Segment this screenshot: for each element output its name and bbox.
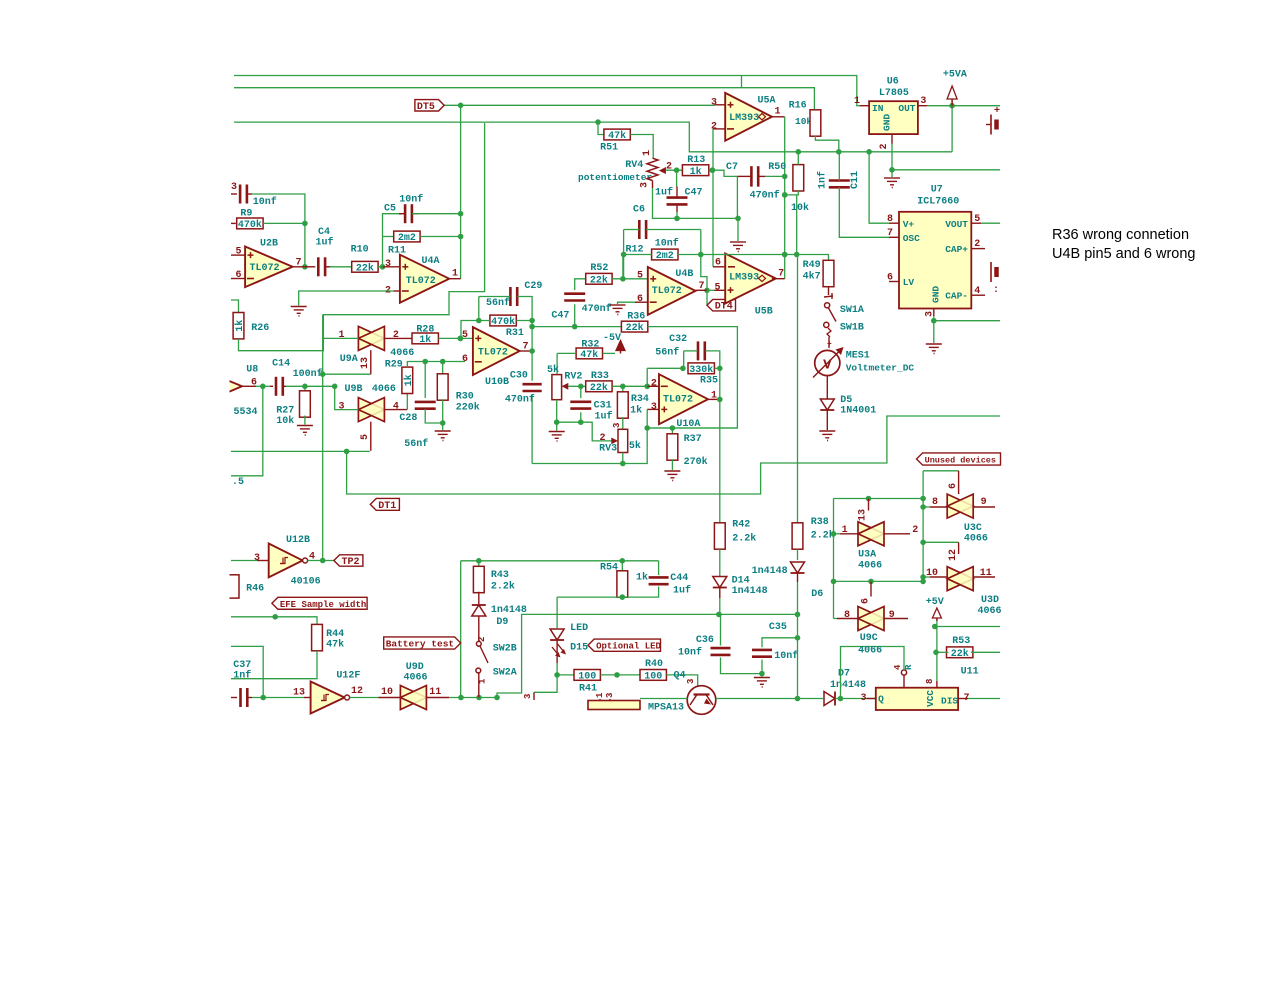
svg-text:+: +	[827, 340, 832, 349]
svg-text:LV: LV	[903, 277, 915, 288]
svg-text:2: 2	[599, 433, 605, 444]
svg-text:4: 4	[393, 402, 399, 413]
svg-text:220k: 220k	[456, 402, 480, 414]
svg-text:3: 3	[254, 553, 260, 564]
svg-text:22k: 22k	[356, 262, 374, 274]
svg-text:U9D: U9D	[406, 662, 424, 673]
svg-text:R53: R53	[952, 636, 970, 647]
svg-text:RV4: RV4	[625, 160, 643, 171]
svg-text:270k: 270k	[684, 456, 708, 468]
svg-text:5k: 5k	[629, 440, 641, 452]
svg-text:U6: U6	[887, 77, 899, 88]
svg-text:5: 5	[360, 434, 371, 440]
svg-text:R29: R29	[385, 360, 403, 371]
svg-text:470k: 470k	[238, 219, 262, 231]
svg-text:12: 12	[948, 549, 959, 561]
svg-text:R26: R26	[251, 323, 269, 334]
svg-text:U4A: U4A	[422, 256, 440, 267]
svg-text:1: 1	[775, 107, 781, 118]
svg-text:U10B: U10B	[485, 377, 509, 388]
svg-text:R36: R36	[627, 312, 645, 323]
svg-text:Voltmeter_DC: Voltmeter_DC	[846, 363, 915, 374]
svg-text:6: 6	[861, 598, 872, 604]
svg-text:U3C: U3C	[964, 523, 982, 534]
svg-text:C7: C7	[726, 162, 738, 173]
svg-text:4066: 4066	[404, 673, 428, 684]
svg-text:D5: D5	[840, 395, 852, 406]
svg-text:470k: 470k	[491, 316, 515, 328]
svg-text:10nf: 10nf	[774, 650, 798, 662]
svg-text:3: 3	[231, 182, 237, 193]
svg-text:4: 4	[893, 664, 903, 670]
svg-text:RV2: RV2	[564, 372, 582, 383]
svg-text:D15: D15	[570, 643, 588, 654]
svg-text:1nf: 1nf	[233, 670, 251, 682]
svg-text:R49: R49	[803, 260, 821, 271]
svg-text:56nf: 56nf	[655, 347, 679, 359]
svg-text:DT4: DT4	[715, 302, 733, 313]
svg-text:Q4: Q4	[674, 671, 686, 682]
svg-text:VCC: VCC	[925, 690, 936, 707]
svg-text:22k: 22k	[951, 648, 969, 660]
svg-text:R13: R13	[687, 155, 705, 166]
svg-text:+5VA: +5VA	[943, 70, 967, 81]
svg-text:D7: D7	[838, 669, 850, 680]
svg-text:R46: R46	[246, 584, 264, 595]
svg-text:6: 6	[462, 354, 468, 365]
svg-text:OUT: OUT	[898, 103, 915, 114]
svg-text:R27: R27	[276, 406, 294, 417]
svg-text:2.2k: 2.2k	[732, 533, 756, 545]
svg-text:3: 3	[860, 693, 866, 704]
svg-text:3: 3	[686, 679, 696, 684]
svg-text:Unused devices: Unused devices	[925, 456, 996, 466]
svg-text:U11: U11	[961, 667, 979, 678]
svg-text:R37: R37	[684, 434, 702, 445]
svg-text:3: 3	[385, 259, 391, 270]
svg-text:+5V: +5V	[926, 597, 944, 608]
svg-text:LED: LED	[570, 623, 588, 634]
svg-text:40106: 40106	[291, 577, 321, 588]
svg-text:6: 6	[236, 270, 242, 281]
svg-text:4066: 4066	[372, 384, 396, 395]
svg-text:TL072: TL072	[478, 348, 508, 359]
svg-text:2: 2	[912, 525, 918, 536]
svg-text:2: 2	[651, 379, 657, 390]
svg-text:9: 9	[889, 610, 895, 621]
svg-text:R44: R44	[326, 629, 344, 640]
svg-text:1uf: 1uf	[673, 585, 691, 597]
svg-text:1k: 1k	[234, 320, 246, 332]
svg-text:D14: D14	[732, 576, 750, 587]
svg-text:470nf: 470nf	[505, 394, 535, 406]
svg-text:6: 6	[948, 483, 959, 489]
svg-text:U9A: U9A	[340, 354, 358, 365]
svg-text:LM393: LM393	[729, 273, 759, 284]
svg-text:4k7: 4k7	[803, 271, 821, 283]
svg-text:R36 wrong connetion: R36 wrong connetion	[1052, 227, 1189, 243]
svg-text:R40: R40	[645, 659, 663, 670]
svg-text:TL072: TL072	[250, 263, 280, 274]
svg-text:100nf: 100nf	[293, 368, 323, 380]
svg-text::: :	[993, 285, 999, 296]
svg-text:R43: R43	[491, 570, 509, 581]
svg-text:.5: .5	[232, 477, 244, 488]
svg-text:10nf: 10nf	[655, 238, 679, 250]
svg-text:U3D: U3D	[981, 595, 999, 606]
svg-text:56nf: 56nf	[486, 297, 510, 309]
svg-text:SW2A: SW2A	[493, 668, 517, 679]
svg-text:TP2: TP2	[342, 557, 360, 568]
svg-text:C31: C31	[594, 401, 612, 412]
svg-text:1: 1	[642, 150, 653, 156]
svg-text:R52: R52	[590, 263, 608, 274]
svg-text:2: 2	[711, 122, 717, 133]
svg-text:2.2k: 2.2k	[491, 581, 515, 593]
svg-text:U5B: U5B	[755, 307, 773, 318]
svg-text:R16: R16	[789, 101, 807, 112]
svg-text:22k: 22k	[590, 274, 608, 286]
svg-text:SW2B: SW2B	[493, 644, 517, 655]
svg-text:DIS: DIS	[941, 696, 958, 707]
svg-text:Q: Q	[878, 694, 884, 705]
svg-text:C11: C11	[850, 171, 861, 189]
svg-text:1: 1	[338, 330, 344, 341]
svg-text:4066: 4066	[978, 606, 1002, 617]
svg-text:TL072: TL072	[406, 276, 436, 287]
svg-text:1k: 1k	[690, 166, 702, 178]
svg-text:R31: R31	[506, 328, 524, 339]
svg-text:R50: R50	[768, 162, 786, 173]
svg-text:11: 11	[429, 687, 441, 698]
svg-text:100: 100	[578, 672, 596, 683]
svg-text:C44: C44	[670, 573, 688, 584]
svg-text:47k: 47k	[580, 349, 598, 361]
svg-text:2m2: 2m2	[398, 233, 416, 244]
svg-text:SW1B: SW1B	[840, 323, 864, 334]
svg-text:1uf: 1uf	[316, 237, 334, 249]
svg-text:DT5: DT5	[417, 102, 435, 113]
svg-text:R54: R54	[600, 563, 618, 574]
svg-text:10k: 10k	[791, 202, 809, 214]
svg-text:1n4148: 1n4148	[752, 566, 788, 577]
svg-text:C6: C6	[633, 205, 645, 216]
svg-text:22k: 22k	[590, 382, 608, 394]
svg-text:ICL7660: ICL7660	[917, 197, 959, 208]
svg-text:R35: R35	[700, 376, 718, 387]
svg-text:3: 3	[338, 402, 344, 413]
svg-text:DT1: DT1	[378, 501, 396, 512]
svg-text:R30: R30	[456, 392, 474, 403]
svg-text:RV3: RV3	[599, 444, 617, 455]
svg-text:8: 8	[844, 610, 850, 621]
svg-text:C35: C35	[769, 622, 787, 633]
svg-text:U9C: U9C	[860, 633, 878, 644]
svg-text:4066: 4066	[858, 646, 882, 657]
svg-text:IN: IN	[872, 103, 884, 114]
svg-text:Optional LED: Optional LED	[596, 642, 661, 652]
svg-text:C30: C30	[510, 371, 528, 382]
svg-text:+: +	[994, 106, 1000, 117]
svg-text:U9B: U9B	[345, 384, 363, 395]
svg-text:10: 10	[381, 687, 393, 698]
svg-text:12: 12	[351, 686, 363, 697]
svg-text:1k: 1k	[403, 374, 415, 386]
svg-text:U2B: U2B	[260, 238, 278, 249]
svg-text:3: 3	[612, 423, 622, 428]
svg-text:R38: R38	[811, 517, 829, 528]
svg-text:10nf: 10nf	[253, 196, 277, 208]
svg-text:C29: C29	[524, 281, 542, 292]
svg-text:1k: 1k	[419, 334, 431, 346]
svg-text:47k: 47k	[326, 639, 344, 651]
svg-text:4066: 4066	[390, 348, 414, 359]
svg-text:1k: 1k	[636, 572, 648, 584]
svg-text:U7: U7	[931, 185, 943, 196]
svg-text:C47: C47	[551, 311, 569, 322]
svg-text:1: 1	[854, 96, 860, 107]
svg-text:-5V: -5V	[603, 333, 621, 344]
svg-text:4066: 4066	[858, 561, 882, 572]
svg-text:5: 5	[714, 283, 720, 294]
svg-text:D9: D9	[496, 617, 508, 628]
svg-text:R42: R42	[732, 520, 750, 531]
svg-text:MES1: MES1	[846, 351, 870, 362]
svg-text:5: 5	[236, 247, 242, 258]
svg-text:330k: 330k	[689, 364, 713, 376]
svg-text:CAP-: CAP-	[945, 291, 968, 302]
svg-text:1uf: 1uf	[595, 411, 613, 423]
svg-text:GND: GND	[931, 286, 942, 303]
svg-text:6: 6	[637, 294, 643, 305]
svg-text:8: 8	[925, 679, 935, 684]
svg-text:TL072: TL072	[663, 395, 693, 406]
svg-text:13: 13	[858, 509, 869, 521]
svg-text:5534: 5534	[234, 407, 258, 418]
svg-text:C28: C28	[399, 413, 417, 424]
svg-text:U5A: U5A	[758, 96, 776, 107]
svg-text:2: 2	[879, 144, 890, 150]
svg-text:1n4148: 1n4148	[491, 605, 527, 616]
svg-text:VOUT: VOUT	[945, 219, 968, 230]
svg-text:3: 3	[605, 693, 615, 698]
svg-text:3: 3	[640, 182, 651, 188]
svg-text:1nf: 1nf	[817, 171, 829, 189]
svg-text:MPSA13: MPSA13	[648, 703, 684, 714]
svg-text:C4: C4	[318, 227, 330, 238]
svg-text:C32: C32	[669, 334, 687, 345]
svg-text:2: 2	[393, 330, 399, 341]
svg-text:R51: R51	[600, 143, 618, 154]
svg-text:10nf: 10nf	[678, 647, 702, 659]
svg-text:22k: 22k	[626, 322, 644, 334]
svg-text:1: 1	[595, 692, 605, 698]
svg-text:56nf: 56nf	[404, 438, 428, 450]
svg-text:R10: R10	[351, 244, 369, 255]
svg-text:10nf: 10nf	[399, 194, 423, 206]
svg-text:U4B: U4B	[675, 269, 693, 280]
svg-text:LM393: LM393	[729, 113, 759, 124]
svg-text:13: 13	[360, 357, 371, 369]
svg-text:7: 7	[778, 269, 784, 280]
svg-text:U4B pin5 and 6 wrong: U4B pin5 and 6 wrong	[1052, 246, 1196, 262]
svg-text:C37: C37	[233, 660, 251, 671]
svg-text:C47: C47	[685, 188, 703, 199]
svg-text:U12F: U12F	[336, 671, 360, 682]
svg-text:SW1A: SW1A	[840, 305, 864, 316]
svg-text:470nf: 470nf	[750, 189, 780, 201]
svg-text:L7805: L7805	[879, 88, 909, 99]
svg-text:CAP+: CAP+	[945, 244, 968, 255]
svg-text:2: 2	[666, 162, 672, 173]
svg-text:U8: U8	[246, 365, 258, 376]
svg-text:U12B: U12B	[286, 535, 310, 546]
svg-text:1n4148: 1n4148	[732, 586, 768, 597]
svg-text:3: 3	[651, 402, 657, 413]
svg-text:C36: C36	[696, 635, 714, 646]
svg-text:GND: GND	[882, 114, 893, 131]
svg-text:TL072: TL072	[652, 286, 682, 297]
svg-text:Battery test: Battery test	[386, 639, 454, 650]
svg-text:100: 100	[644, 672, 662, 683]
svg-text:2m2: 2m2	[656, 251, 674, 262]
svg-text:3: 3	[711, 98, 717, 109]
svg-text:1: 1	[452, 269, 458, 280]
svg-text:3: 3	[523, 694, 533, 699]
svg-text:D6: D6	[811, 589, 823, 600]
svg-text:R11: R11	[388, 246, 406, 257]
svg-text:470nf: 470nf	[582, 303, 612, 315]
svg-text:C5: C5	[384, 204, 396, 215]
svg-text:U3A: U3A	[858, 550, 876, 561]
svg-text:1N4001: 1N4001	[840, 406, 876, 417]
svg-text:EFE Sample width: EFE Sample width	[280, 600, 366, 610]
svg-text:5: 5	[637, 270, 643, 281]
svg-text:2: 2	[477, 637, 487, 642]
svg-text:13: 13	[293, 688, 305, 699]
svg-text:47k: 47k	[608, 130, 626, 142]
svg-text:1uf: 1uf	[655, 187, 673, 199]
svg-text:V+: V+	[903, 219, 915, 230]
svg-text:C14: C14	[272, 359, 290, 370]
svg-text:4066: 4066	[964, 534, 988, 545]
svg-text:potentiometer: potentiometer	[578, 172, 652, 183]
svg-text:R34: R34	[631, 394, 649, 405]
svg-text:1k: 1k	[630, 405, 642, 417]
svg-text:R: R	[904, 664, 914, 670]
svg-text:2.2k: 2.2k	[811, 530, 835, 542]
svg-text:10k: 10k	[276, 415, 294, 427]
svg-text:OSC: OSC	[903, 233, 920, 244]
svg-text:1n4148: 1n4148	[830, 680, 866, 691]
